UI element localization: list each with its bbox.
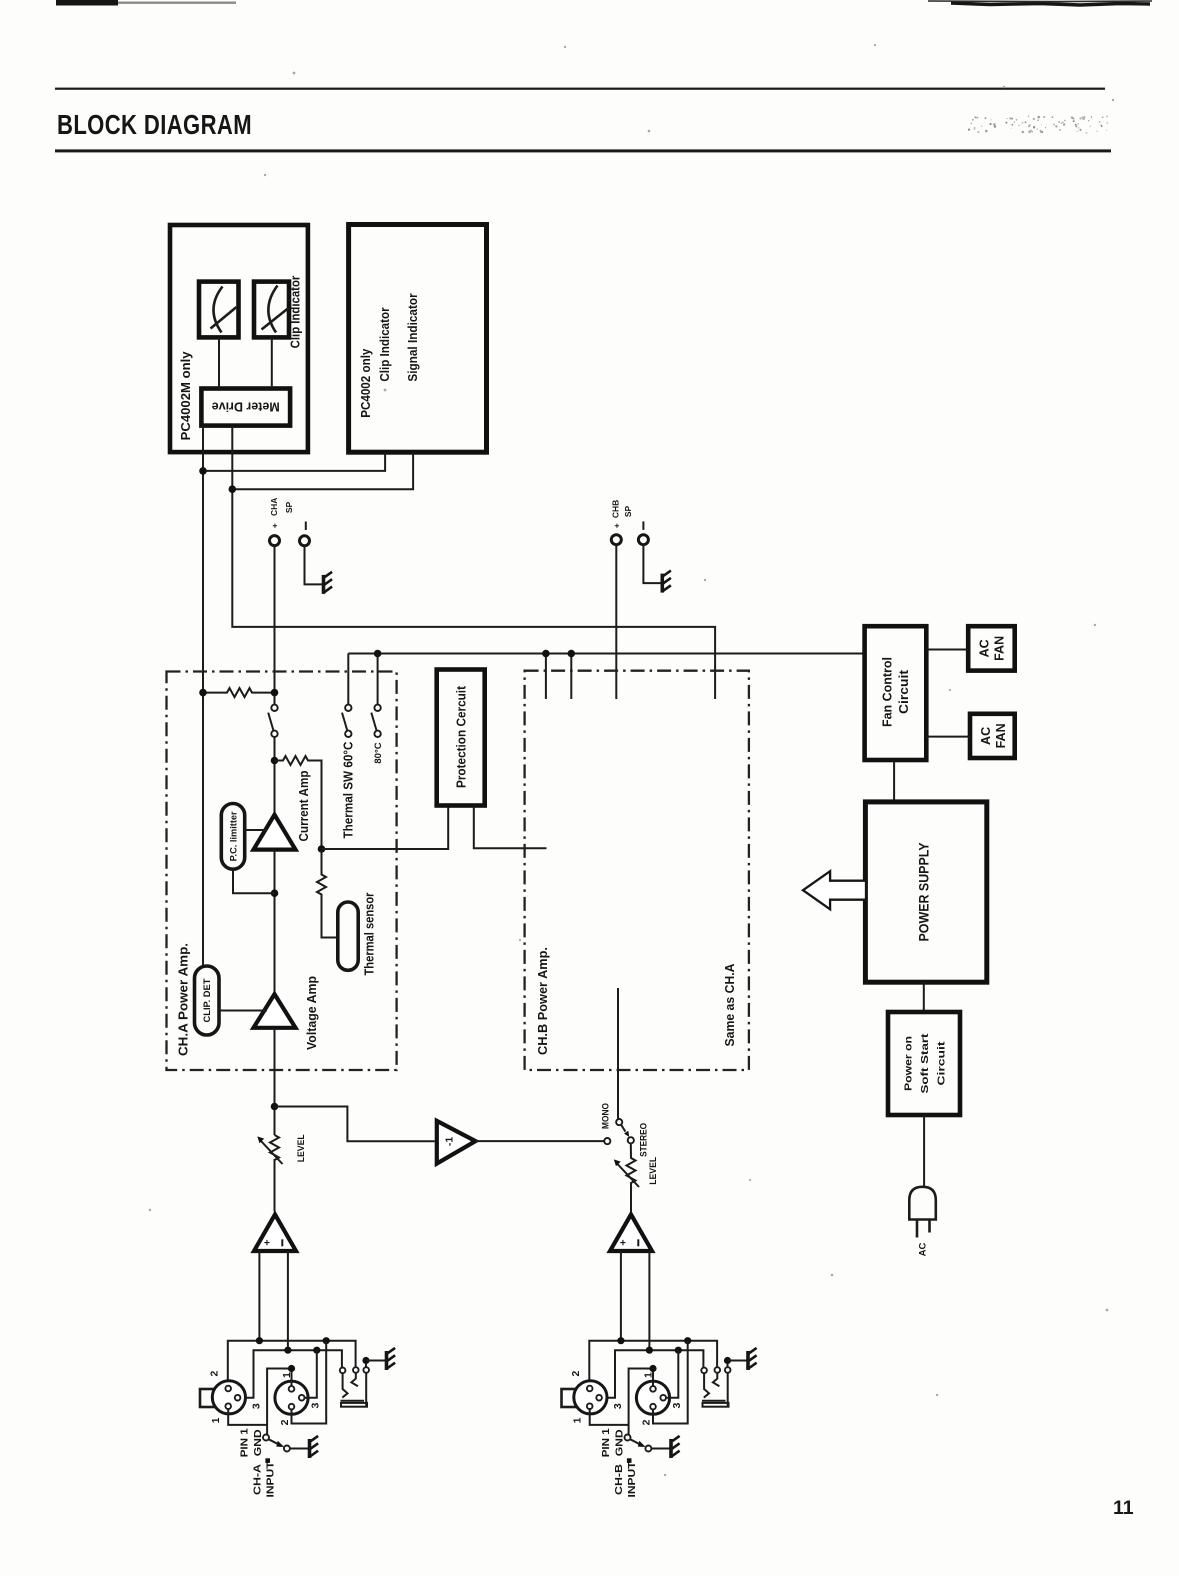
wire fan control to AC FAN 2 bbox=[926, 736, 970, 738]
wire J1 pin1 to gnd switch bbox=[228, 1409, 267, 1425]
node h1 male pin2 bbox=[323, 1337, 330, 1344]
wire inverter output to mono contact bbox=[476, 1140, 605, 1142]
scan artifact: top-right rough black line bbox=[951, 3, 1150, 5]
level pot arrow CH-A bbox=[261, 1141, 283, 1164]
node h2 male pin3 bbox=[313, 1347, 320, 1354]
svg-text:Meter Drive: Meter Drive bbox=[212, 400, 280, 414]
jack spring c2 bbox=[351, 1373, 358, 1386]
node h2 amp- bbox=[284, 1347, 291, 1354]
XLR female latch tab bbox=[200, 1389, 214, 1407]
wire +CHB down into CH.B box bbox=[615, 545, 617, 699]
ground (jack) bbox=[387, 1348, 396, 1370]
svg-text:INPUT: INPUT bbox=[265, 1461, 277, 1498]
svg-text:AC: AC bbox=[917, 1243, 928, 1257]
op-amp current amp bbox=[254, 815, 296, 850]
node 545.9,653.5 bbox=[542, 650, 550, 658]
svg-text:FAN: FAN bbox=[992, 636, 1006, 661]
wire meter M1 to Meter Drive bbox=[218, 337, 220, 388]
wire voltage amp to current amp bbox=[274, 850, 276, 995]
wire meter M2 to Meter Drive bbox=[271, 337, 273, 388]
svg-text:3: 3 bbox=[309, 1403, 321, 1409]
svg-text:Circuit: Circuit bbox=[897, 669, 911, 714]
wire fan control to power supply bbox=[893, 760, 895, 802]
node h1 amp+ bbox=[256, 1337, 263, 1344]
svg-text:Soft Start: Soft Start bbox=[919, 1033, 931, 1094]
node at 203,470.9 bbox=[199, 467, 207, 475]
svg-text:CH.B Power Amp.: CH.B Power Amp. bbox=[536, 947, 550, 1055]
sense resistor to protection bbox=[275, 756, 322, 849]
svg-text:80°C: 80°C bbox=[373, 742, 384, 763]
J2 pin 3 bbox=[299, 1395, 305, 1401]
wire fan control to AC FAN 1 bbox=[926, 649, 968, 651]
svg-text:CLIP. DET: CLIP. DET bbox=[202, 978, 213, 1022]
Fan Control Circuit box bbox=[865, 626, 927, 760]
terminal - CHB SP bbox=[638, 535, 648, 545]
level pot arrow CH-B bbox=[618, 1164, 640, 1187]
switch 80C arm bbox=[371, 713, 376, 731]
wire voltage amp output down bbox=[274, 1028, 276, 1135]
node above c3 bbox=[362, 1357, 369, 1364]
svg-text:INPUT: INPUT bbox=[626, 1461, 638, 1498]
wire c3 node to ground bbox=[366, 1361, 385, 1368]
XLR male connector J2 bbox=[275, 1381, 308, 1414]
meter M2 bbox=[254, 282, 289, 338]
thermal switch 60C arm bbox=[342, 713, 347, 731]
svg-text:CHB: CHB bbox=[611, 500, 621, 518]
J2 pin 1 bbox=[289, 1386, 295, 1392]
svg-text:LEVEL: LEVEL bbox=[648, 1157, 659, 1185]
wire bus h1 (pin2 to jack c2) bbox=[228, 1341, 356, 1386]
wire 80C riser bbox=[377, 654, 379, 705]
svg-text:Current Amp: Current Amp bbox=[297, 770, 311, 841]
node 274.5,760.5 bbox=[271, 757, 279, 765]
thermistor resistor bbox=[317, 849, 336, 938]
jack sleeve contact c3 bbox=[365, 1373, 367, 1407]
svg-text:FAN: FAN bbox=[994, 723, 1008, 748]
svg-text:STEREO: STEREO bbox=[638, 1123, 649, 1157]
faint smudge right of heading bbox=[968, 116, 1108, 134]
wire P.C. limitter to current amp bbox=[245, 829, 267, 831]
heading rule top bbox=[55, 88, 1105, 90]
svg-text:MONO: MONO bbox=[601, 1103, 612, 1129]
svg-text:Signal Indicator: Signal Indicator bbox=[406, 293, 420, 381]
svg-text:-1: -1 bbox=[444, 1137, 456, 1146]
svg-text:CH.A Power Amp.: CH.A Power Amp. bbox=[176, 943, 190, 1056]
jack contact c1 bbox=[340, 1368, 346, 1374]
node 321.5,849 bbox=[318, 845, 326, 853]
node 571.3,653.5 bbox=[568, 650, 576, 658]
wire -CHA to ground bbox=[305, 546, 323, 584]
wire bus h2 (pin3 to jack c1) bbox=[241, 1350, 342, 1398]
svg-text:PC4002 only: PC4002 only bbox=[359, 349, 373, 418]
contact circle (inverter side) bbox=[604, 1138, 610, 1144]
ground (CHB -) bbox=[662, 571, 671, 593]
ground (CHA -) bbox=[324, 572, 333, 594]
wire P.C. limitter to node bbox=[233, 869, 275, 893]
svg-text:1: 1 bbox=[210, 1417, 222, 1423]
feedback resistor (to meter line) bbox=[203, 688, 275, 697]
wires CH-B amp inputs down bbox=[621, 1251, 650, 1350]
stub wire from rail B into CH.B bbox=[570, 654, 572, 700]
CLIP. DET pill bbox=[195, 966, 220, 1035]
AC FAN box 1 bbox=[968, 626, 1015, 670]
contact MONO bbox=[616, 1119, 622, 1125]
svg-text:Power on: Power on bbox=[903, 1036, 915, 1091]
terminal - CHA SP bbox=[300, 536, 310, 546]
jack contact c2 bbox=[353, 1367, 359, 1373]
wire Meter Drive right lead down then right (rail A) bbox=[232, 426, 715, 699]
node at 232.3,489.2 bbox=[229, 485, 237, 493]
svg-text:PIN 1: PIN 1 bbox=[239, 1428, 251, 1457]
pin1 gnd switch contact bottom bbox=[284, 1446, 290, 1452]
stub wire CH.B to MONO switch bbox=[617, 988, 619, 1119]
jack sleeve bracket bbox=[341, 1400, 365, 1402]
svg-text:SP: SP bbox=[284, 502, 294, 514]
pin1 gnd switch arm with arrow bbox=[269, 1439, 279, 1444]
AC FAN box 2 bbox=[970, 714, 1015, 758]
svg-text:POWER SUPPLY: POWER SUPPLY bbox=[917, 843, 932, 942]
heading rule bottom bbox=[55, 149, 1111, 152]
square marker CH-A input bbox=[265, 1458, 270, 1463]
node 274.5,1106.5 bbox=[271, 1103, 279, 1111]
svg-text:Thermal sensor: Thermal sensor bbox=[363, 892, 377, 975]
svg-text:CHA: CHA bbox=[269, 498, 279, 516]
wire protection to CH.B bbox=[474, 806, 547, 849]
node 274.5,692.6 bbox=[271, 689, 279, 697]
J2 pin 2 bbox=[289, 1404, 295, 1410]
svg-text:CH-A: CH-A bbox=[251, 1464, 263, 1495]
wire thermal SW riser bbox=[347, 654, 349, 705]
wire soft start to AC plug bbox=[923, 1115, 925, 1188]
wire J2 pin3 to h2 bbox=[305, 1350, 317, 1398]
PC4002M only box bbox=[170, 225, 308, 452]
svg-text:Thermal SW 60°C: Thermal SW 60°C bbox=[341, 742, 355, 839]
big arrow from power supply bbox=[803, 871, 866, 909]
wire J2 pin1 to gnd switch bbox=[267, 1369, 291, 1435]
wire Meter Drive left lead down bbox=[202, 426, 204, 966]
jack spring c1 bbox=[342, 1373, 347, 1397]
wire PC4002 right lead to node bbox=[232, 452, 413, 489]
svg-text:Clip Indicator: Clip Indicator bbox=[289, 276, 303, 349]
svg-text:+: + bbox=[612, 523, 622, 528]
node 377.6,653.5 bbox=[374, 650, 382, 658]
svg-text:Clip Indicator: Clip Indicator bbox=[378, 307, 392, 381]
output relay switch arm bbox=[268, 713, 273, 731]
level pot CH-A bbox=[270, 1135, 279, 1212]
svg-text:AC: AC bbox=[979, 727, 993, 745]
AC plug prongs bbox=[917, 1220, 930, 1238]
wire power supply to soft start bbox=[923, 982, 925, 1012]
stub wire from rail B into CH.B bbox=[545, 654, 547, 700]
meter M1 bbox=[199, 282, 239, 338]
svg-text:Fan Control: Fan Control bbox=[880, 657, 894, 727]
CH.A box (dash-dot) bbox=[167, 672, 397, 1071]
J1 pin 2 bbox=[225, 1386, 231, 1392]
J1 pin 1 bbox=[225, 1403, 231, 1409]
svg-text:3: 3 bbox=[250, 1403, 262, 1409]
Meter Drive box bbox=[201, 389, 290, 426]
svg-text:GND: GND bbox=[252, 1429, 264, 1456]
svg-text:PC4002M only: PC4002M only bbox=[179, 351, 193, 440]
ground (pin1 gnd) bbox=[310, 1436, 319, 1458]
label minus (rotated) bbox=[642, 521, 644, 530]
switch 80C contacts bbox=[374, 705, 380, 711]
wire -CHB to ground bbox=[643, 545, 660, 583]
svg-text:AC: AC bbox=[977, 639, 991, 657]
svg-text:+: + bbox=[618, 1239, 630, 1245]
svg-text:Circuit: Circuit bbox=[936, 1041, 948, 1086]
square marker CH-B input bbox=[627, 1458, 632, 1463]
op-amp CH-A input bbox=[254, 1215, 296, 1252]
wire J2 pin2 to h1 bbox=[292, 1341, 327, 1424]
svg-text:2: 2 bbox=[279, 1419, 291, 1425]
terminal + CHA SP bbox=[270, 536, 280, 546]
J1 pin 3 bbox=[235, 1395, 241, 1401]
label - CH-B amp bbox=[637, 1239, 639, 1246]
input connector cluster CH-B (copy) bbox=[562, 1337, 757, 1458]
svg-text:Same as CH.A: Same as CH.A bbox=[723, 964, 737, 1047]
level pot CH-B bbox=[627, 1143, 636, 1211]
svg-text:11: 11 bbox=[1113, 1497, 1134, 1519]
svg-text:SP: SP bbox=[623, 506, 633, 518]
svg-text:P.C. limitter: P.C. limitter bbox=[229, 811, 240, 861]
AC plug bbox=[909, 1187, 936, 1220]
label - CH-A amp bbox=[281, 1239, 283, 1246]
Power on Soft Start Circuit box bbox=[888, 1012, 960, 1115]
scan noise specks bbox=[149, 44, 1114, 1476]
node 203,692.6 bbox=[199, 689, 207, 697]
thermal sensor pill bbox=[338, 902, 358, 970]
thermal switch 60C contacts bbox=[345, 705, 351, 711]
label minus (rotated) bbox=[305, 522, 307, 531]
PC4002 only box bbox=[349, 225, 487, 453]
node J2 pin1 corner bbox=[288, 1365, 295, 1372]
op-amp voltage amp bbox=[254, 994, 296, 1028]
pin1 gnd switch contact top bbox=[263, 1435, 269, 1441]
wire switch to current amp output bbox=[274, 737, 276, 815]
svg-text:BLOCK DIAGRAM: BLOCK DIAGRAM bbox=[57, 109, 252, 140]
jack contact c3 bbox=[363, 1367, 369, 1373]
op-amp inverter -1 bbox=[437, 1121, 476, 1164]
scan artifact: top-left black bar bbox=[56, 0, 118, 6]
POWER SUPPLY box bbox=[865, 802, 986, 982]
svg-text:+: + bbox=[269, 523, 279, 528]
svg-text:+: + bbox=[262, 1239, 274, 1245]
svg-text:2: 2 bbox=[209, 1371, 221, 1377]
output relay switch contacts bbox=[271, 705, 277, 711]
svg-text:Voltage Amp: Voltage Amp bbox=[305, 976, 319, 1050]
wires CH-A amp inputs down bbox=[259, 1251, 288, 1350]
op-amp CH-B input bbox=[610, 1215, 652, 1252]
wire CLIP.DET to voltage amp bbox=[219, 1010, 267, 1012]
wire to protection circuit bbox=[322, 806, 449, 850]
wire PC4002 left lead to node bbox=[203, 452, 385, 471]
P.C. limitter pill bbox=[221, 804, 244, 870]
wire switch to ground bbox=[290, 1448, 308, 1450]
XLR female connector J1 bbox=[212, 1381, 245, 1414]
svg-text:LEVEL: LEVEL bbox=[296, 1134, 307, 1162]
Protection Cercuit box bbox=[437, 670, 485, 806]
terminal + CHB SP bbox=[611, 535, 621, 545]
wire +CHA down into CH.A box bbox=[274, 546, 276, 705]
node 274.5,893.2 bbox=[271, 889, 279, 897]
wire rail B to Fan Control bbox=[348, 653, 864, 655]
wire CH.A node to inverter bbox=[275, 1107, 435, 1142]
switch arm with arrow bbox=[621, 1125, 625, 1132]
svg-text:Protection Cercuit: Protection Cercuit bbox=[454, 685, 468, 788]
svg-text:CH-B: CH-B bbox=[613, 1464, 625, 1495]
contact STEREO bbox=[628, 1137, 634, 1143]
CH.B box (dash-dot) bbox=[525, 671, 749, 1070]
